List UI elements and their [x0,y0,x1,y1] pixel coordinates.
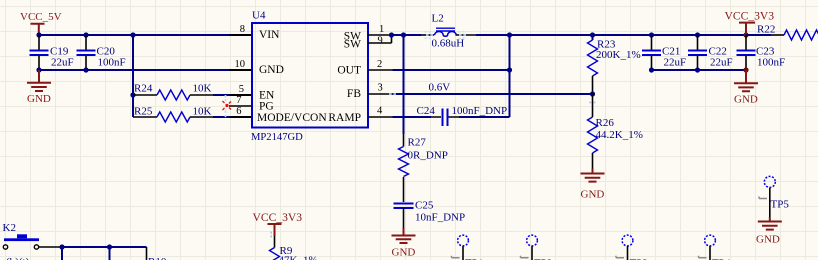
svg-text:GND: GND [392,247,416,259]
svg-text:FB: FB [347,88,361,100]
node junction C19 bottom [36,67,41,72]
node junction SW pins [389,32,394,37]
node junction VCC_3V3/C23 [743,32,748,37]
ground under R26 [581,169,605,201]
svg-text:R25: R25 [134,106,153,118]
node junction C20 bottom [83,67,88,72]
pin 2 OUT stub [368,69,393,71]
svg-text:SW: SW [344,39,361,51]
wire VIN top rail [39,34,229,36]
svg-text:GND: GND [581,189,605,201]
svg-text:6: 6 [236,106,241,117]
IC U4 MP2147GD [252,23,368,128]
svg-text:PG: PG [259,101,274,113]
wire output caps bottom rail [652,69,747,71]
resistor R23 [588,35,641,94]
svg-text:0R_DNP: 0R_DNP [408,150,448,162]
ground under TP5 [756,217,782,246]
svg-text:8: 8 [240,24,245,35]
test point TP5 [759,176,789,217]
switch K2 [3,222,63,260]
svg-text:U4: U4 [252,10,266,22]
pin 1 SW stub [368,34,393,36]
pin 10 stub [229,69,252,71]
wire GND rail to pin 10 [39,69,229,71]
svg-text:MP2147GD: MP2147GD [251,132,303,143]
svg-text:K2: K2 [3,222,16,234]
node junction SW snubber [401,32,406,37]
svg-text:VCC_3V3: VCC_3V3 [725,10,775,23]
node junction C21 top [649,32,654,37]
svg-text:R22: R22 [757,24,775,36]
resistor R9 [270,236,318,260]
node junction C20 top [83,32,88,37]
wire hotspot dash FB [389,93,396,95]
wire L2 to VCC_3V3 rail [476,34,746,36]
capacitor C23 [737,35,786,70]
svg-text:C23: C23 [756,45,775,57]
node junction FB [590,91,595,96]
power VCC_3V3 bottom [253,211,303,236]
capacitor C20 [77,35,126,70]
capacitor C19 [30,35,74,70]
svg-text:C22: C22 [709,45,727,57]
svg-text:GND: GND [734,94,758,106]
wire C24 to OUT vertical [459,116,510,118]
svg-text:22uF: 22uF [710,57,733,69]
svg-text:22uF: 22uF [664,57,687,69]
power VCC_5V [20,11,62,35]
pin 9 SW stub [368,35,392,43]
wire K2 net [62,247,147,260]
pin 8 stub [229,34,252,36]
test point TP1 [452,235,484,260]
resistor R10 lead [146,247,148,260]
wire OUT row [393,69,510,71]
node junction K2 a [59,244,64,249]
wire SW to L2 [393,34,422,36]
node junction R23 top [590,32,595,37]
svg-text:C20: C20 [97,45,116,57]
svg-text:200K_1%: 200K_1% [596,49,641,61]
node junction C23 bottom [743,67,748,72]
svg-text:3: 3 [378,83,383,94]
node junction R24 [130,92,135,97]
svg-text:10K: 10K [193,106,212,118]
svg-text:L2: L2 [432,13,444,25]
svg-text:GND: GND [756,234,780,246]
node junction C22 bottom [695,67,700,72]
svg-text:C25: C25 [415,200,434,212]
svg-text:TP5: TP5 [771,199,790,211]
node junction K2 b [107,244,112,249]
svg-text:0.6V: 0.6V [429,82,451,94]
svg-text:100nF_DNP: 100nF_DNP [452,105,508,117]
test point TP4 [699,235,731,260]
svg-text:2: 2 [377,59,382,70]
node junction OUT drop [507,32,512,37]
svg-text:GND: GND [27,93,51,105]
svg-text:R26: R26 [596,117,615,129]
svg-text:VCC_3V3: VCC_3V3 [253,211,303,224]
ground under C25 [392,228,416,259]
node junction OUT [507,67,512,72]
wire hotspot dash R26 top [589,102,597,104]
wire OUT vertical [509,35,511,117]
resistor R24 [133,83,252,101]
svg-text:C24: C24 [417,105,436,117]
svg-text:0.68uH: 0.68uH [432,38,465,50]
wire FB row [393,93,593,95]
resistor R26 [588,94,643,169]
capacitor C25 [394,177,466,228]
pin 3 FB stub [368,93,393,95]
svg-text:VIN: VIN [259,29,280,41]
svg-text:47K_1%: 47K_1% [279,255,318,260]
svg-text:C19: C19 [50,45,69,57]
svg-text:10nF_DNP: 10nF_DNP [415,212,465,224]
wire hotspot dash R9 [270,232,272,238]
wire EN pull-up vertical [132,35,134,117]
svg-text:100nF: 100nF [98,57,126,69]
svg-text:1: 1 [379,24,384,35]
test point TP2 [521,235,553,260]
capacitor C22 [688,35,733,70]
svg-text:VCC_5V: VCC_5V [20,11,62,23]
svg-text:C21: C21 [662,45,680,57]
ground under C23 [734,70,758,106]
node junction C21 bottom [649,67,654,72]
wire SW snubber vertical [403,35,405,134]
svg-text:7: 7 [236,95,241,106]
svg-text:R27: R27 [408,137,427,149]
capacitor C21 [642,35,686,70]
pin 4 RAMP stub [368,116,393,118]
test point TP3 [616,235,648,260]
pin 7 PG stub [229,105,252,107]
resistor R25 [133,106,252,123]
svg-text:R24: R24 [134,83,153,95]
no-ERC marker X [223,101,232,110]
svg-text:5: 5 [239,84,244,95]
wire RAMP to C24 [393,116,432,118]
node junction C22 top [695,32,700,37]
svg-text:(b)(t): (b)(t) [6,256,30,260]
ground under C19 [27,70,51,105]
node junction VCC_5V/C19 [36,32,41,37]
power VCC_3V3 top [725,10,775,36]
resistor R27 [399,134,448,177]
svg-text:100nF: 100nF [757,57,785,69]
svg-text:MODE/VCON: MODE/VCON [257,112,327,124]
svg-text:RAMP: RAMP [328,112,361,124]
svg-text:4: 4 [377,106,383,117]
node junction EN pullup top [130,32,135,37]
svg-text:22uF: 22uF [51,57,74,69]
inductor L2 [421,13,476,50]
svg-text:44.2K_1%: 44.2K_1% [596,129,643,141]
svg-text:10K: 10K [193,83,212,95]
svg-text:R10: R10 [148,256,167,260]
svg-text:10: 10 [235,59,246,70]
svg-text:GND: GND [259,64,284,76]
wire hotspot dash PG [225,95,227,118]
svg-text:9: 9 [378,36,383,47]
capacitor C24 [417,105,508,126]
resistor R22 [746,24,818,41]
svg-text:OUT: OUT [337,65,361,77]
